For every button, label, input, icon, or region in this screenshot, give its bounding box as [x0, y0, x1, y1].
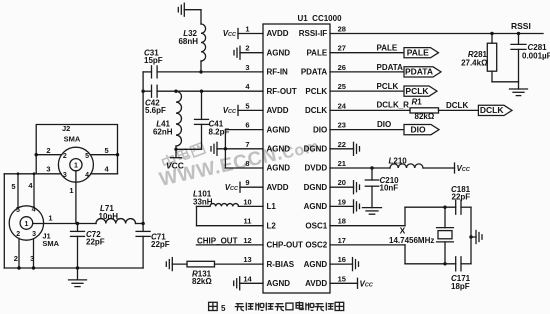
wire RF-IN left of C31 — [143, 71, 151, 73]
ground (pin 19) — [354, 200, 360, 213]
svg-text:R1: R1 — [412, 97, 423, 106]
junction L41 bottom / Vcc — [174, 148, 177, 151]
svg-text:AVDD: AVDD — [267, 106, 289, 115]
svg-text:SMA: SMA — [42, 239, 59, 248]
capacitor C71 — [136, 231, 150, 236]
svg-text:DVDD: DVDD — [305, 164, 328, 173]
watermark 中电网 — [161, 141, 206, 169]
wire C41 top lead — [201, 91, 203, 119]
wire pin 3 RF-IN — [157, 71, 263, 73]
ground (crystal) — [476, 231, 482, 244]
svg-text:3: 3 — [63, 172, 67, 179]
wire OSC2 dropper — [404, 245, 406, 264]
ground (C210) — [363, 208, 382, 215]
wire R281 top lead — [491, 34, 493, 44]
wire matching bus vertical — [142, 72, 144, 224]
wire J1 pin 1 — [33, 223, 96, 225]
junction J1 pin 2 bottom — [17, 266, 20, 269]
wire C210 bottom lead — [371, 186, 373, 207]
wire J2 pin 2 — [36, 154, 62, 156]
power Vcc (pin 1) — [223, 29, 238, 39]
ground (RSSI filter) — [510, 89, 528, 96]
wire pin 9 AVDD — [240, 186, 263, 188]
svg-text:DCLK: DCLK — [446, 101, 468, 110]
svg-text:19: 19 — [338, 197, 346, 206]
svg-text:24: 24 — [338, 101, 347, 110]
svg-text:21: 21 — [338, 159, 346, 168]
svg-text:AGND: AGND — [267, 145, 291, 154]
svg-text:AVDD: AVDD — [267, 183, 289, 192]
svg-text:RF-IN: RF-IN — [267, 68, 289, 77]
svg-text:28: 28 — [338, 25, 346, 34]
svg-text:20: 20 — [338, 178, 346, 187]
junction crystal ground tap — [469, 235, 472, 238]
wire pin 24 DCLK_R — [330, 109, 410, 111]
wire pin 28 RSSI-IF — [330, 33, 543, 35]
capacitor C181 — [456, 200, 461, 214]
wire crystal right vertical — [470, 207, 472, 264]
svg-text:9: 9 — [245, 178, 249, 187]
ground (bottom bus) — [69, 268, 87, 287]
wire ground to R131 — [172, 263, 187, 265]
power Vcc (pin 15) — [358, 278, 374, 288]
wire OSC2 bottom left — [405, 263, 456, 265]
wire pin 8 AGND — [225, 167, 263, 169]
wire pin 14 AGND — [240, 282, 263, 284]
svg-text:PCLK: PCLK — [405, 86, 429, 96]
wire OSC1 top right — [461, 206, 471, 208]
wire C281 bottom lead — [518, 49, 520, 89]
ground (pin 14) — [234, 277, 240, 290]
wire R1 to DCLK tag — [439, 109, 479, 111]
svg-text:8: 8 — [245, 159, 249, 168]
svg-text:J2: J2 — [62, 124, 70, 133]
wire J1 pin 2 — [18, 238, 20, 268]
ground (pin 22) — [354, 142, 360, 155]
svg-text:18pF: 18pF — [451, 282, 470, 291]
svg-text:11: 11 — [244, 217, 252, 226]
wire to crystal ground — [471, 236, 476, 238]
svg-text:1: 1 — [245, 25, 249, 34]
svg-text:27.4kΩ: 27.4kΩ — [461, 59, 488, 68]
svg-text:OSC1: OSC1 — [305, 221, 327, 230]
inductor L101 — [210, 204, 238, 207]
wire pin 1 AVDD — [238, 33, 263, 35]
junction J2 pin 5 — [116, 153, 119, 156]
ground (above L32) — [178, 3, 184, 16]
svg-text:SMA: SMA — [64, 135, 81, 144]
resistor R131 — [187, 261, 215, 267]
op-amp U1 CC1000 body — [263, 24, 330, 293]
svg-text:23: 23 — [338, 121, 346, 130]
power Vcc (DVDD) — [455, 163, 471, 173]
wire pin 26 PDATA — [330, 71, 404, 73]
wire C281 top lead — [518, 34, 520, 45]
wire pin 11 L2 — [197, 225, 264, 227]
svg-text:2: 2 — [46, 146, 50, 155]
svg-text:17: 17 — [338, 236, 346, 245]
wire J1 pin 3 — [33, 239, 35, 268]
svg-text:RSSI-IF: RSSI-IF — [299, 29, 328, 38]
svg-text:8.2pF: 8.2pF — [209, 127, 230, 136]
svg-text:RF-OUT: RF-OUT — [267, 87, 297, 96]
svg-text:22pF: 22pF — [452, 193, 471, 202]
svg-text:5: 5 — [221, 304, 226, 313]
wire J2 pin 4 — [91, 173, 118, 175]
svg-text:33nH: 33nH — [193, 197, 213, 206]
wire pin 13 R-BIAS — [215, 263, 264, 265]
svg-text:62nH: 62nH — [153, 128, 173, 137]
svg-text:PDATA: PDATA — [405, 67, 433, 77]
power Vcc (pin 9) — [225, 182, 240, 192]
svg-text:AGND: AGND — [267, 164, 291, 173]
svg-text:DCLK_R: DCLK_R — [377, 100, 410, 109]
svg-text:DIO: DIO — [410, 124, 426, 134]
svg-text:2: 2 — [245, 44, 249, 53]
svg-text:13: 13 — [243, 255, 251, 264]
wire pin 18 OSC1 — [330, 225, 405, 227]
junction AGND bus / pin 7 — [224, 147, 227, 150]
svg-text:L1: L1 — [267, 202, 277, 211]
svg-text:0.001µF: 0.001µF — [522, 51, 550, 60]
svg-text:DIO: DIO — [377, 120, 391, 129]
svg-text:2: 2 — [63, 153, 67, 160]
svg-text:L2: L2 — [267, 221, 277, 230]
svg-text:3: 3 — [30, 254, 34, 263]
junction J2 pin 2 — [35, 153, 38, 156]
power Vcc (pin 5) — [223, 105, 238, 115]
svg-text:AVDD: AVDD — [267, 29, 289, 38]
wire L101 vertical — [196, 206, 198, 225]
svg-text:1: 1 — [24, 221, 28, 228]
svg-text:18: 18 — [338, 217, 346, 226]
svg-text:10: 10 — [243, 197, 251, 206]
svg-text:1: 1 — [48, 213, 52, 222]
svg-text:10nH: 10nH — [99, 212, 119, 221]
capacitor C210 — [365, 180, 379, 186]
wire pin 20 DGND — [330, 186, 354, 188]
junction RSSI / C281 — [517, 32, 520, 35]
wire pin 23 DIO — [330, 129, 404, 131]
svg-text:68nH: 68nH — [178, 37, 198, 46]
signal tag PALE — [404, 48, 439, 58]
junction J2 feed / C72 / L71 — [76, 222, 79, 225]
junction J1 pin 4 top — [33, 172, 36, 175]
junction L41 top — [174, 90, 177, 93]
junction J1 pin 3 bottom — [32, 266, 35, 269]
svg-text:PDATA: PDATA — [377, 63, 404, 72]
wire OSC1 top left — [405, 206, 456, 208]
svg-text:10nF: 10nF — [380, 184, 399, 193]
resistor R1 — [410, 108, 439, 113]
svg-text:PDATA: PDATA — [301, 68, 328, 77]
svg-text:5: 5 — [245, 101, 249, 110]
wire J2 pin 5 — [90, 154, 117, 156]
wire pin 10 L1 right — [239, 205, 264, 207]
capacitor C41 — [195, 119, 209, 124]
wire pin 27 PALE — [330, 52, 404, 54]
signal tag DIO — [404, 125, 439, 135]
caption 图5 无线通信接口电路原理图 — [209, 302, 344, 313]
ground (pin 2) — [234, 46, 240, 59]
svg-text:AGND: AGND — [267, 279, 291, 288]
wire AGND bus vertical — [224, 130, 226, 168]
svg-text:PALE: PALE — [407, 47, 429, 57]
svg-text:AGND: AGND — [304, 260, 328, 269]
junction J1 pin 5 top — [17, 172, 20, 175]
wire C71 bottom lead — [142, 236, 144, 268]
wire ground to L32 top — [184, 9, 201, 11]
wire pin 15 AVDD — [330, 282, 358, 284]
wire J1 pin 5 — [17, 174, 19, 208]
junction C72 / ground bus — [76, 266, 79, 269]
wire pin 25 PCLK — [330, 90, 404, 92]
junction DVDD / C210 — [370, 166, 373, 169]
wire L71 to bus — [136, 223, 144, 225]
wire pin 6 AGND — [225, 129, 263, 131]
svg-text:1: 1 — [69, 186, 73, 195]
wire RF-OUT left of C42 — [143, 90, 151, 92]
inductor L41 — [176, 91, 181, 146]
ground (R131) — [166, 258, 172, 271]
svg-text:2: 2 — [14, 254, 18, 263]
svg-text:AGND: AGND — [304, 202, 328, 211]
svg-text:L210: L210 — [389, 156, 408, 165]
capacitor C72 — [71, 231, 85, 236]
svg-text:PCLK: PCLK — [305, 87, 327, 96]
wire pin 17 OSC2 — [330, 244, 405, 246]
wire pin 22 DGND — [330, 148, 354, 150]
wire R281 bottom lead — [491, 71, 493, 82]
wire C41 bottom lead — [201, 124, 203, 149]
wire pin 4 RF-OUT — [157, 90, 263, 92]
wire pin 16 AGND — [330, 263, 353, 265]
junction crystal bottom — [443, 262, 446, 265]
wire pin 7 AGND — [217, 148, 263, 150]
svg-text:DGND: DGND — [304, 145, 328, 154]
svg-text:PALE: PALE — [306, 48, 327, 57]
junction bus / C71 — [141, 222, 144, 225]
connector J2 SMA body — [58, 147, 93, 182]
svg-text:6: 6 — [245, 121, 249, 130]
junction L32 / RF-IN — [199, 70, 202, 73]
capacitor C171 — [456, 257, 461, 271]
wire C72 top lead — [77, 224, 79, 232]
svg-text:CHP-OUT: CHP-OUT — [267, 241, 304, 250]
svg-text:DCLK: DCLK — [480, 105, 504, 115]
wire OSC2 bottom right — [461, 263, 471, 265]
ground (pin 16) — [353, 258, 359, 271]
svg-text:5: 5 — [85, 153, 89, 160]
svg-text:22pF: 22pF — [86, 237, 105, 246]
svg-text:PALE: PALE — [377, 44, 398, 53]
svg-text:4: 4 — [32, 206, 36, 213]
svg-text:27: 27 — [338, 44, 346, 53]
svg-text:3: 3 — [32, 231, 36, 238]
svg-text:14: 14 — [243, 274, 252, 283]
wire R281 to C281 bottom — [492, 81, 519, 83]
junction bus / RF-OUT — [141, 90, 144, 93]
power VCC (below L41) — [166, 149, 184, 170]
wire L41 bottom lead — [175, 146, 177, 149]
wire J2 pin 1 vertical — [75, 171, 77, 224]
svg-text:2: 2 — [16, 231, 20, 238]
svg-text:1: 1 — [74, 163, 78, 170]
svg-text:DIO: DIO — [313, 125, 327, 134]
ground (pin 7) — [211, 142, 217, 155]
svg-text:AVDD: AVDD — [305, 279, 327, 288]
svg-text:OSC2: OSC2 — [305, 241, 327, 250]
svg-text:5: 5 — [11, 182, 15, 191]
wire J1 pin 4 — [33, 174, 35, 208]
svg-text:15: 15 — [338, 274, 346, 283]
svg-text:DGND: DGND — [304, 183, 328, 192]
wire J1 shield left vertical — [3, 174, 5, 268]
wire pin 12 CHP-OUT — [196, 244, 263, 246]
svg-text:82kΩ: 82kΩ — [192, 277, 212, 286]
wire pin 19 AGND — [330, 205, 354, 207]
svg-text:26: 26 — [338, 63, 346, 72]
wire pin 10 L1 left — [197, 205, 211, 207]
capacitor C31 — [152, 66, 158, 78]
wire C210 top lead — [371, 168, 373, 180]
svg-text:16: 16 — [338, 255, 346, 264]
wire pin 2 AGND — [240, 52, 263, 54]
wire C71 top lead — [142, 224, 144, 232]
svg-text:5: 5 — [16, 207, 20, 214]
signal tag DCLK — [478, 105, 512, 115]
svg-text:22: 22 — [338, 140, 346, 149]
svg-text:PCLK: PCLK — [377, 82, 399, 91]
wire L32 bottom lead — [200, 61, 202, 72]
svg-text:4: 4 — [85, 172, 89, 179]
signal tag PDATA — [404, 67, 441, 77]
wire pin 21 DVDD — [330, 167, 390, 169]
svg-text:7: 7 — [245, 140, 249, 149]
svg-text:AGND: AGND — [267, 125, 291, 134]
svg-text:X: X — [400, 225, 406, 235]
wire L32 top lead — [200, 10, 202, 24]
connector J2 SMA top box wire — [36, 125, 117, 174]
svg-text:3: 3 — [46, 165, 50, 174]
junction C41 top — [200, 90, 203, 93]
svg-text:15pF: 15pF — [144, 56, 163, 65]
svg-text:CHIP_OUT: CHIP_OUT — [197, 236, 238, 245]
wire pin 5 AVDD — [238, 109, 263, 111]
signal tag PCLK — [404, 86, 437, 96]
svg-text:14.7456MHz: 14.7456MHz — [389, 236, 434, 245]
ground (pin 20) — [354, 181, 360, 194]
wire J2 pin 3 — [4, 173, 61, 175]
svg-text:AGND: AGND — [267, 48, 291, 57]
junction RSSI / R281 — [490, 32, 493, 35]
inductor L71 — [96, 219, 136, 224]
svg-text:22pF: 22pF — [151, 240, 170, 249]
svg-text:82kΩ: 82kΩ — [415, 112, 435, 121]
resistor R281 — [487, 43, 496, 71]
inductor L32 — [201, 24, 206, 61]
svg-text:R-BIAS: R-BIAS — [267, 260, 295, 269]
svg-text:12: 12 — [243, 236, 251, 245]
capacitor C281 — [511, 44, 526, 49]
crystal X 14.7456MHz — [437, 207, 454, 264]
svg-text:U1 CC1000: U1 CC1000 — [298, 14, 343, 23]
capacitor C42 — [152, 85, 158, 97]
wire C72 bottom lead — [77, 236, 79, 268]
svg-text:25: 25 — [338, 82, 346, 91]
svg-text:3: 3 — [245, 63, 249, 72]
wire L41 bottom to C41 bottom — [176, 148, 202, 150]
svg-text:DCLK: DCLK — [305, 106, 327, 115]
inductor L210 — [390, 164, 423, 168]
svg-text:5: 5 — [105, 146, 109, 155]
junction crystal top — [443, 206, 446, 209]
connector J1 SMA body — [9, 206, 43, 240]
wire ground bus bottom — [4, 267, 143, 269]
svg-text:RSSI: RSSI — [511, 21, 531, 31]
svg-text:5.6pF: 5.6pF — [145, 106, 166, 115]
svg-text:VCC: VCC — [166, 160, 184, 170]
wire OSC1 riser — [404, 207, 406, 226]
wire L210 to Vcc — [423, 167, 455, 169]
